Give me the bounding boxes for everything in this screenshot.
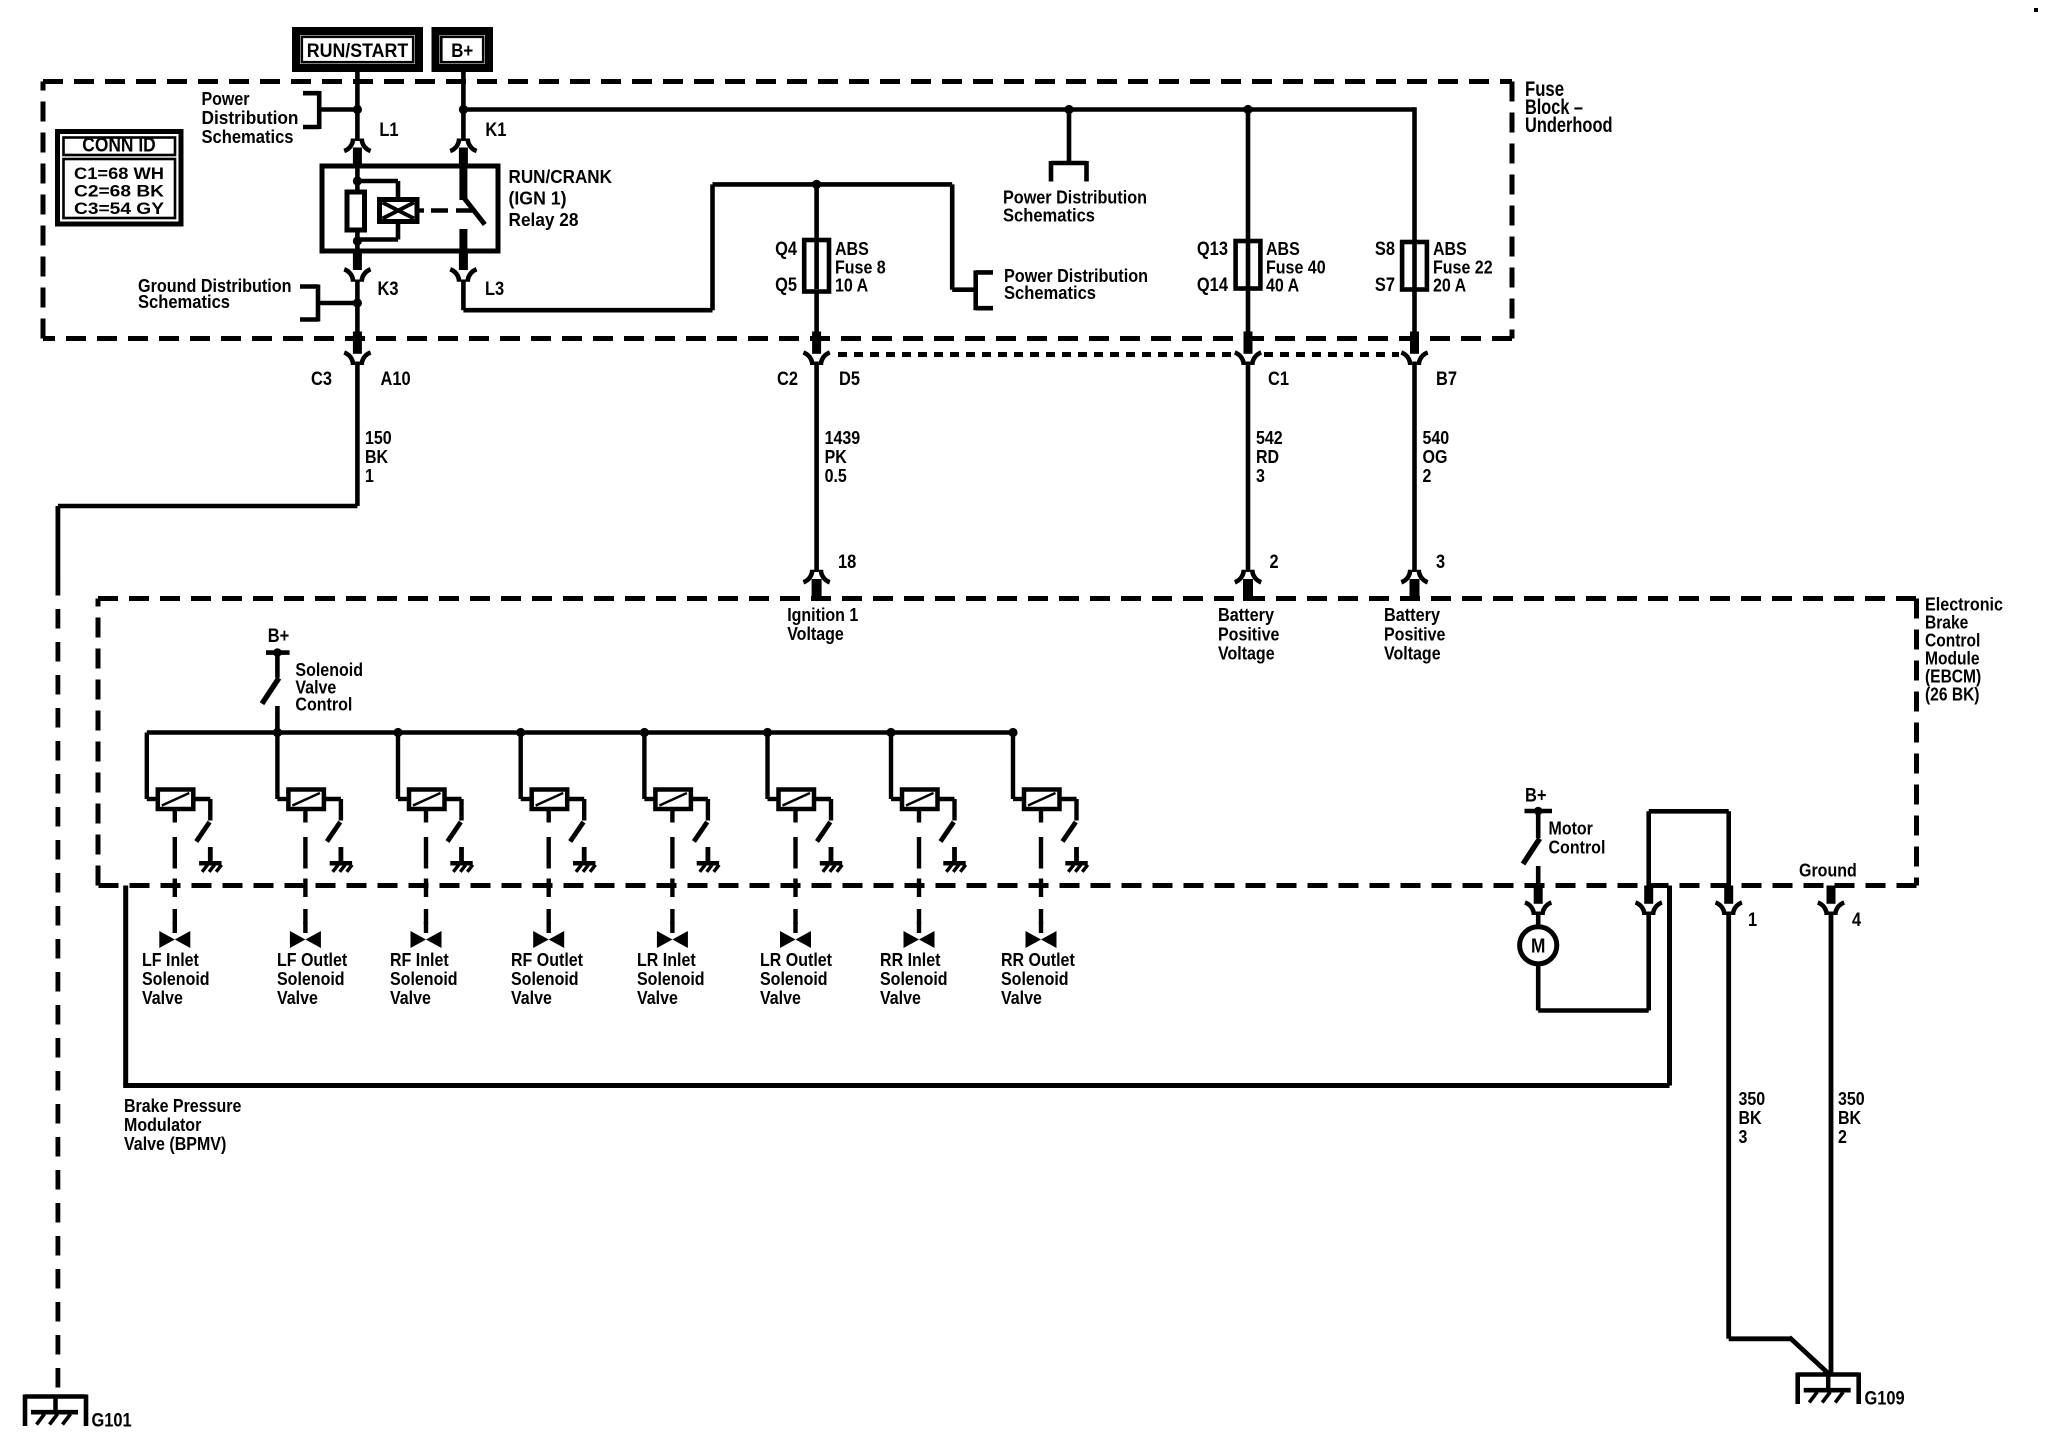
svg-text:2: 2 bbox=[1270, 552, 1279, 573]
wire fuse 8 top bbox=[814, 184, 819, 243]
ground G101 bbox=[25, 1394, 86, 1399]
svg-text:RR Outlet: RR Outlet bbox=[1001, 949, 1075, 970]
junction node K1 feed bbox=[459, 105, 468, 114]
wire 350 BK 2 bbox=[1829, 912, 1834, 1375]
svg-text:Brake Pressure: Brake Pressure bbox=[124, 1095, 241, 1116]
fuse ABS Fuse 40 40A bbox=[1246, 244, 1251, 287]
dotted inline connector line bbox=[838, 352, 1232, 357]
valve RR Outlet Solenoid Valve bbox=[1039, 922, 1043, 933]
svg-text:Solenoid: Solenoid bbox=[511, 968, 579, 989]
svg-text:Q4: Q4 bbox=[775, 239, 797, 260]
solenoid coil RF Outlet bbox=[519, 733, 523, 800]
svg-text:Valve: Valve bbox=[390, 987, 431, 1008]
connector B7 bbox=[1410, 332, 1419, 354]
relay coil (solenoid) box bbox=[380, 200, 418, 222]
CONN ID table bbox=[58, 132, 182, 225]
junction node bus tap RF Outlet bbox=[516, 728, 525, 737]
ground G109 bbox=[1798, 1372, 1859, 1377]
wire coil branch bottom bbox=[396, 222, 401, 240]
wire 1439 PK 0.5 bbox=[814, 362, 819, 573]
svg-text:Modulator: Modulator bbox=[124, 1114, 201, 1135]
svg-text:542: 542 bbox=[1256, 427, 1283, 448]
svg-text:A10: A10 bbox=[381, 369, 411, 390]
ground internal LF Inlet bbox=[199, 861, 221, 866]
svg-text:S7: S7 bbox=[1375, 275, 1395, 296]
relay switch bbox=[459, 166, 467, 200]
svg-text:350: 350 bbox=[1838, 1088, 1865, 1109]
svg-text:1: 1 bbox=[1748, 910, 1757, 931]
wire 350 BK 3 bbox=[1726, 912, 1731, 1339]
svg-text:540: 540 bbox=[1423, 427, 1450, 448]
junction node bus tap RR Inlet bbox=[886, 728, 895, 737]
svg-text:RF Outlet: RF Outlet bbox=[511, 949, 583, 970]
svg-text:BK: BK bbox=[1838, 1107, 1862, 1128]
svg-text:3: 3 bbox=[1739, 1126, 1748, 1147]
svg-text:18: 18 bbox=[838, 552, 856, 573]
switch solenoid valve control bbox=[262, 678, 279, 704]
wire dashed to G101 bbox=[56, 506, 61, 576]
svg-text:150: 150 bbox=[365, 427, 392, 448]
junction node power distribution tap bbox=[1064, 105, 1073, 114]
junction node bus tap RR Outlet bbox=[1008, 728, 1017, 737]
svg-text:Schematics: Schematics bbox=[1004, 282, 1096, 303]
fuse block underhood dashed border bbox=[43, 79, 1512, 84]
power feed box B+ bbox=[432, 27, 494, 72]
svg-text:LR Inlet: LR Inlet bbox=[637, 949, 696, 970]
wire fuse 40 to C1 bbox=[1246, 289, 1251, 334]
junction node bus tap LF Outlet bbox=[273, 728, 282, 737]
junction node L1 feed bbox=[353, 105, 362, 114]
switch driver LR Outlet bbox=[812, 797, 831, 801]
svg-text:Solenoid: Solenoid bbox=[277, 968, 345, 989]
svg-text:C2: C2 bbox=[777, 369, 798, 390]
junction node relay coil top bbox=[353, 176, 362, 185]
svg-text:C1=68 WH: C1=68 WH bbox=[74, 165, 164, 183]
svg-text:BK: BK bbox=[365, 446, 389, 467]
valve RF Inlet Solenoid Valve bbox=[424, 922, 428, 933]
svg-text:LF Inlet: LF Inlet bbox=[142, 949, 199, 970]
svg-text:RD: RD bbox=[1256, 446, 1279, 467]
wire 542 RD 3 bbox=[1246, 362, 1251, 573]
connector pin 3 EBCM bbox=[1401, 570, 1410, 583]
svg-text:Positive: Positive bbox=[1218, 623, 1279, 644]
connector pin 1 bbox=[1724, 886, 1733, 904]
wire B+ bus to fuse columns bbox=[463, 107, 1414, 112]
svg-text:D5: D5 bbox=[839, 369, 860, 390]
connector pin 2 EBCM bbox=[1235, 570, 1244, 583]
valve LF Outlet Solenoid Valve bbox=[303, 922, 307, 933]
svg-text:Underhood: Underhood bbox=[1525, 114, 1613, 137]
svg-text:Schematics: Schematics bbox=[202, 126, 294, 147]
svg-text:Solenoid: Solenoid bbox=[142, 968, 210, 989]
svg-text:3: 3 bbox=[1256, 465, 1265, 486]
svg-text:PK: PK bbox=[825, 446, 848, 467]
svg-text:BK: BK bbox=[1739, 1107, 1763, 1128]
wire dashed solenoid output RF Inlet bbox=[424, 809, 428, 823]
connector pin 18 EBCM bbox=[803, 570, 812, 583]
valve LF Inlet Solenoid Valve bbox=[173, 922, 177, 933]
solenoid coil RR Inlet bbox=[889, 733, 893, 800]
svg-text:Solenoid: Solenoid bbox=[760, 968, 828, 989]
svg-text:Valve: Valve bbox=[1001, 987, 1042, 1008]
wire dashed solenoid output RR Inlet bbox=[917, 809, 921, 823]
svg-text:L1: L1 bbox=[379, 120, 399, 141]
svg-text:Q5: Q5 bbox=[775, 275, 797, 296]
svg-text:0.5: 0.5 bbox=[825, 465, 847, 486]
svg-text:S8: S8 bbox=[1375, 239, 1395, 260]
valve LR Inlet Solenoid Valve bbox=[670, 922, 674, 933]
wire solenoid supply bus bbox=[147, 730, 1013, 734]
svg-text:Battery: Battery bbox=[1384, 604, 1441, 625]
connector C2/D5 bbox=[812, 332, 821, 354]
svg-text:Ground: Ground bbox=[1799, 860, 1857, 881]
svg-text:OG: OG bbox=[1423, 446, 1448, 467]
wire motor return bbox=[1536, 964, 1541, 1011]
connector L1 bbox=[344, 139, 353, 152]
svg-text:C3=54 GY: C3=54 GY bbox=[74, 200, 164, 218]
svg-text:Valve: Valve bbox=[637, 987, 678, 1008]
wire dashed solenoid output LF Inlet bbox=[173, 809, 177, 823]
relay coil feed wire bbox=[355, 166, 360, 192]
svg-text:Power: Power bbox=[202, 88, 250, 109]
junction node bus tap LR Outlet bbox=[763, 728, 772, 737]
svg-text:Schematics: Schematics bbox=[138, 291, 230, 312]
svg-text:Schematics: Schematics bbox=[1003, 205, 1095, 226]
wire bracket to L1 node bbox=[319, 107, 357, 112]
svg-text:Solenoid: Solenoid bbox=[637, 968, 705, 989]
svg-text:LR Outlet: LR Outlet bbox=[760, 949, 832, 970]
svg-text:B+: B+ bbox=[268, 626, 290, 647]
switch driver RF Outlet bbox=[565, 797, 584, 801]
svg-text:10 A: 10 A bbox=[835, 275, 868, 296]
svg-text:Module: Module bbox=[1925, 649, 1980, 669]
switch driver RR Outlet bbox=[1058, 797, 1077, 801]
svg-text:1: 1 bbox=[365, 465, 374, 486]
svg-text:2: 2 bbox=[1838, 1126, 1847, 1147]
svg-text:Brake: Brake bbox=[1925, 613, 1968, 633]
svg-text:(IGN 1): (IGN 1) bbox=[509, 188, 567, 209]
EBCM dashed border bbox=[98, 596, 1917, 601]
wire dashed solenoid output LR Outlet bbox=[793, 809, 797, 823]
svg-text:M: M bbox=[1531, 936, 1545, 958]
svg-text:1439: 1439 bbox=[825, 427, 861, 448]
relay actuation dashed link bbox=[417, 208, 424, 212]
svg-text:(26 BK): (26 BK) bbox=[1925, 685, 1980, 705]
solenoid coil RR Outlet bbox=[1011, 733, 1015, 800]
wire resistor bottom bbox=[355, 230, 360, 251]
solenoid coil LR Inlet bbox=[642, 733, 646, 800]
svg-text:Distribution: Distribution bbox=[202, 107, 299, 128]
svg-text:Valve: Valve bbox=[511, 987, 552, 1008]
junction node ABS fuse 40 tap bbox=[1243, 105, 1252, 114]
switch driver RR Inlet bbox=[936, 797, 955, 801]
connector C3/A10 bbox=[353, 332, 362, 354]
stray mark top right bbox=[2034, 8, 2038, 12]
switch driver LF Outlet bbox=[322, 797, 341, 801]
svg-text:Battery: Battery bbox=[1218, 604, 1275, 625]
svg-text:Valve: Valve bbox=[760, 987, 801, 1008]
valve LR Outlet Solenoid Valve bbox=[793, 922, 797, 933]
solenoid coil LF Outlet bbox=[275, 733, 279, 800]
svg-text:C1: C1 bbox=[1268, 369, 1289, 390]
connector K3 bbox=[353, 251, 362, 270]
valve RR Inlet Solenoid Valve bbox=[917, 922, 921, 933]
svg-text:K3: K3 bbox=[378, 279, 399, 300]
wire coil branch top bbox=[357, 179, 398, 184]
svg-text:Solenoid: Solenoid bbox=[880, 968, 948, 989]
svg-text:C3: C3 bbox=[311, 369, 332, 390]
svg-text:2: 2 bbox=[1423, 465, 1432, 486]
junction node bus tap LR Inlet bbox=[640, 728, 649, 737]
svg-text:Q13: Q13 bbox=[1197, 239, 1228, 260]
svg-text:(EBCM): (EBCM) bbox=[1925, 667, 1981, 687]
wire K3 to C3 bbox=[355, 280, 360, 334]
fuse ABS Fuse 22 20A bbox=[1412, 245, 1417, 288]
svg-text:CONN ID: CONN ID bbox=[82, 135, 156, 157]
wire upper power distribution tap bbox=[1067, 110, 1072, 164]
svg-text:Electronic: Electronic bbox=[1925, 595, 2003, 615]
svg-text:Voltage: Voltage bbox=[1384, 643, 1441, 664]
bracket Power Distribution (top middle) bbox=[1051, 161, 1087, 166]
wire L3 loop to fuse 8 feed bbox=[461, 280, 466, 311]
svg-text:Q14: Q14 bbox=[1197, 275, 1228, 296]
switch driver LF Inlet bbox=[191, 797, 210, 801]
connector L3 bbox=[459, 251, 468, 270]
wire EBCM internal bridge bbox=[1646, 811, 1651, 885]
connector motor pin bbox=[1534, 886, 1543, 904]
svg-text:Solenoid: Solenoid bbox=[390, 968, 458, 989]
wire dashed solenoid output LF Outlet bbox=[303, 809, 307, 823]
relay RUN/CRANK (IGN 1) Relay 28 box bbox=[322, 166, 498, 251]
svg-text:C2=68 BK: C2=68 BK bbox=[74, 183, 164, 201]
wire fuse 22 top bbox=[1412, 107, 1417, 245]
switch driver LR Inlet bbox=[689, 797, 708, 801]
svg-text:K1: K1 bbox=[485, 120, 506, 141]
svg-text:Solenoid: Solenoid bbox=[1001, 968, 1069, 989]
svg-text:G101: G101 bbox=[92, 1411, 133, 1432]
ground internal RF Outlet bbox=[573, 861, 595, 866]
svg-text:Valve: Valve bbox=[142, 987, 183, 1008]
wire 150 BK 1 bbox=[355, 362, 360, 507]
svg-text:RR Inlet: RR Inlet bbox=[880, 949, 941, 970]
svg-text:L3: L3 bbox=[485, 279, 504, 300]
ground internal LF Outlet bbox=[330, 861, 352, 866]
junction node fuse 8 feed bbox=[812, 180, 821, 189]
switch motor control bbox=[1523, 839, 1540, 865]
wire feed to power distribution bracket bbox=[950, 184, 955, 289]
svg-text:Valve: Valve bbox=[880, 987, 921, 1008]
svg-text:4: 4 bbox=[1852, 910, 1861, 931]
svg-text:RUN/START: RUN/START bbox=[307, 40, 409, 62]
switch driver RF Inlet bbox=[443, 797, 462, 801]
wire bracket to K3 bbox=[318, 301, 357, 306]
svg-text:B+: B+ bbox=[1525, 786, 1547, 807]
svg-text:Valve (BPMV): Valve (BPMV) bbox=[124, 1133, 226, 1154]
solenoid coil RF Inlet bbox=[396, 733, 400, 800]
svg-text:B7: B7 bbox=[1436, 369, 1457, 390]
svg-text:350: 350 bbox=[1739, 1088, 1766, 1109]
svg-text:RUN/CRANK: RUN/CRANK bbox=[509, 166, 613, 187]
junction node K3 ground tap bbox=[353, 298, 362, 307]
wire dashed solenoid output RR Outlet bbox=[1039, 809, 1043, 823]
wire dashed solenoid output LR Inlet bbox=[670, 809, 674, 823]
bracket Ground Distribution bbox=[300, 284, 318, 289]
motor M bbox=[1536, 912, 1541, 928]
solenoid coil LR Outlet bbox=[765, 733, 769, 800]
bracket Power Distribution (upper left) bbox=[303, 91, 319, 96]
svg-text:Valve: Valve bbox=[277, 987, 318, 1008]
svg-text:RF Inlet: RF Inlet bbox=[390, 949, 449, 970]
svg-text:Control: Control bbox=[1925, 631, 1980, 651]
svg-text:Control: Control bbox=[295, 694, 352, 715]
junction node relay coil bottom bbox=[353, 236, 362, 245]
wire fuse 22 to B7 bbox=[1412, 290, 1417, 334]
wire fuse 8 to C2 bbox=[814, 292, 819, 334]
ground internal LR Inlet bbox=[697, 861, 719, 866]
power feed box RUN/START bbox=[292, 27, 423, 72]
BPMV box outline bbox=[123, 886, 128, 1086]
svg-text:Voltage: Voltage bbox=[1218, 643, 1275, 664]
bracket Power Distribution (middle) bbox=[976, 270, 993, 275]
wire 540 OG 2 bbox=[1412, 362, 1417, 573]
svg-text:Positive: Positive bbox=[1384, 623, 1445, 644]
ground internal RR Inlet bbox=[943, 861, 965, 866]
solenoid coil LF Inlet bbox=[145, 733, 149, 800]
svg-text:Control: Control bbox=[1549, 837, 1606, 858]
svg-text:Relay 28: Relay 28 bbox=[509, 209, 579, 230]
wire dashed solenoid output RF Outlet bbox=[547, 809, 551, 823]
svg-text:Motor: Motor bbox=[1549, 818, 1593, 839]
svg-text:B+: B+ bbox=[451, 40, 473, 62]
svg-text:LF Outlet: LF Outlet bbox=[277, 949, 347, 970]
svg-text:3: 3 bbox=[1436, 552, 1445, 573]
ground internal LR Outlet bbox=[820, 861, 842, 866]
wire B+ box to relay K1 bbox=[461, 72, 466, 141]
fuse ABS Fuse 8 10A bbox=[814, 243, 819, 289]
wire RUN/START to relay L1 bbox=[355, 72, 360, 141]
ground internal RR Outlet bbox=[1065, 861, 1087, 866]
svg-text:Ignition 1: Ignition 1 bbox=[787, 604, 858, 625]
svg-text:G109: G109 bbox=[1865, 1389, 1905, 1410]
connector K1 bbox=[450, 139, 459, 152]
valve RF Outlet Solenoid Valve bbox=[547, 922, 551, 933]
svg-text:Voltage: Voltage bbox=[787, 623, 844, 644]
connector pin 4 bbox=[1827, 886, 1836, 904]
ground internal RF Inlet bbox=[450, 861, 472, 866]
svg-text:40 A: 40 A bbox=[1266, 275, 1299, 296]
junction node bus tap RF Inlet bbox=[393, 728, 402, 737]
connector C1 bbox=[1244, 332, 1253, 354]
wire fuse 40 top bbox=[1246, 110, 1251, 245]
resistor relay internal bbox=[347, 192, 365, 230]
svg-text:20 A: 20 A bbox=[1433, 275, 1466, 296]
connector motor return pin bbox=[1636, 903, 1645, 916]
